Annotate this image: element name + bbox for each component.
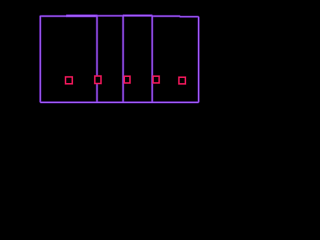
- wire top edge segment E: [180, 15, 199, 18]
- wire vertical net 3: [122, 16, 125, 103]
- wire top edge segment C2: [123, 14, 153, 17]
- wire bottom edge: [40, 101, 198, 104]
- contact pad P4: [153, 76, 159, 83]
- contact pad P2: [95, 76, 101, 83]
- wire vertical net 2: [96, 15, 99, 102]
- wire vertical net 4: [151, 15, 154, 102]
- contact pad P5: [179, 77, 185, 84]
- wire top edge segment D: [152, 15, 180, 18]
- wire left vertical edge: [39, 16, 42, 103]
- contact pad P1: [66, 77, 73, 84]
- wire top edge segment C1: [97, 15, 123, 18]
- wire top edge segment A: [40, 15, 66, 18]
- wire right vertical edge: [197, 17, 200, 103]
- wire top edge band B: [66, 14, 97, 17]
- contact pad P3: [124, 76, 130, 83]
